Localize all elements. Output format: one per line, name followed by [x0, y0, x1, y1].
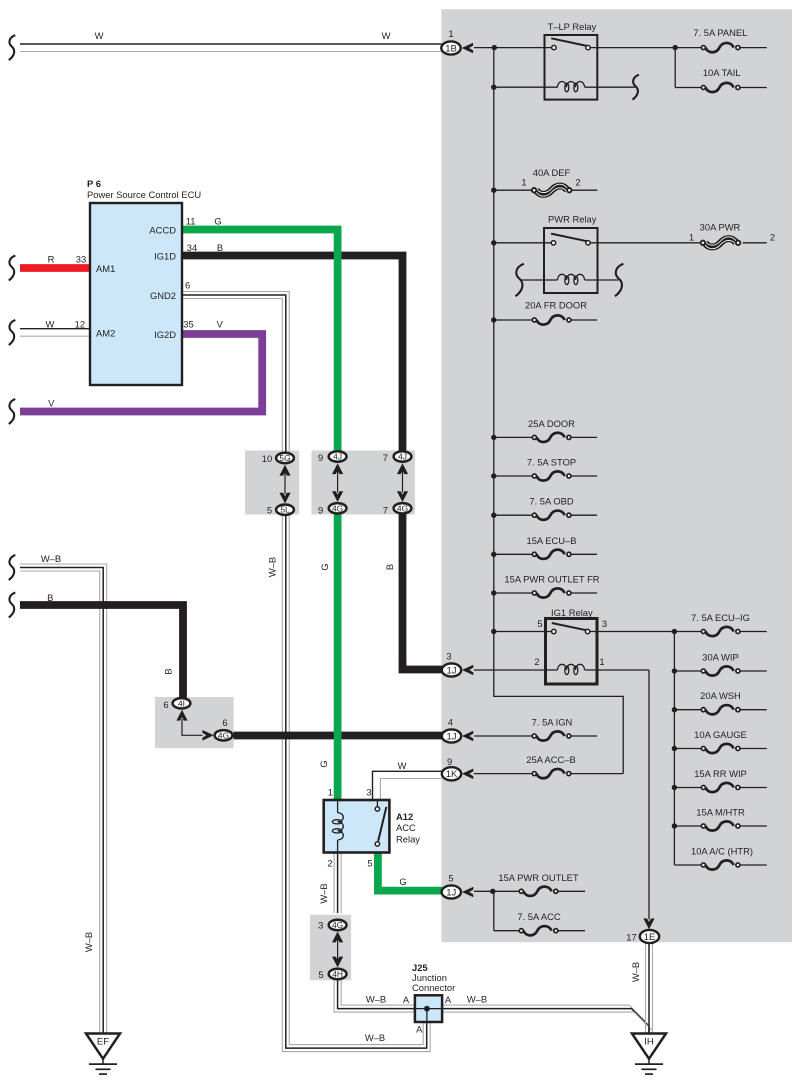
- ECU P6 Power Source Control ECU: [87, 178, 201, 385]
- svg-text:1E: 1E: [644, 932, 656, 943]
- fuse 15A RR WIP: [694, 768, 747, 792]
- connector 5G pin 10: [262, 453, 294, 464]
- connector 4G pin 6: [215, 717, 233, 741]
- connector 4J pin 9: [318, 451, 347, 463]
- pin 35 label V: [183, 319, 223, 330]
- svg-text:4G: 4G: [218, 730, 229, 740]
- svg-text:5: 5: [267, 505, 272, 516]
- svg-text:W–B: W–B: [366, 994, 386, 1005]
- svg-text:B: B: [384, 564, 395, 570]
- wire W ACC relay pin3 to 1K: [373, 771, 443, 800]
- connector 1J pin 4: [442, 717, 461, 743]
- break symbol R wire: [9, 256, 16, 281]
- ground EF: [86, 1034, 120, 1075]
- svg-text:1K: 1K: [446, 769, 458, 780]
- break symbol top W wire: [9, 35, 16, 60]
- junction at 674.4,709.7: [672, 707, 677, 712]
- fuse 7.5A ACC: [517, 911, 560, 935]
- svg-text:40A DEF: 40A DEF: [533, 167, 571, 178]
- wire W-B from ECU GND2 to J25 junction connector: [182, 292, 430, 1052]
- wire T-LP relay coil row: [494, 86, 636, 88]
- connector 4I pin 6: [163, 698, 190, 710]
- svg-text:34: 34: [187, 242, 197, 253]
- svg-text:15A PWR OUTLET: 15A PWR OUTLET: [498, 872, 579, 883]
- wire 25A ACC-B fuse row: [474, 773, 623, 775]
- wire IG1 coil pin1 to 1E: [585, 670, 649, 919]
- svg-text:25A ACC–B: 25A ACC–B: [526, 754, 576, 765]
- svg-text:35: 35: [183, 319, 193, 330]
- svg-text:6: 6: [222, 717, 227, 728]
- svg-text:R: R: [48, 254, 55, 265]
- junction at 493.8,554.3: [491, 552, 496, 557]
- label W-B on GND2 wire: [267, 557, 278, 577]
- svg-text:4G: 4G: [332, 503, 343, 513]
- svg-text:ACCD: ACCD: [149, 225, 176, 236]
- connector block 4J/4G background: [312, 451, 415, 515]
- wire 10A A/C (HTR) fuse row: [674, 864, 766, 866]
- svg-text:6: 6: [163, 699, 168, 710]
- arrow into 1E: [643, 919, 654, 930]
- fuse 10A GAUGE: [694, 729, 747, 753]
- label B on black wire: [384, 564, 395, 570]
- svg-text:IG2D: IG2D: [154, 329, 176, 340]
- junction at 493.8,242.8: [491, 240, 496, 245]
- wire 15A PWR OUTLET fuse row: [474, 890, 585, 892]
- relay T-LP: [545, 21, 598, 100]
- pin 6 label: [185, 280, 190, 291]
- connector 1K pin 9: [442, 756, 461, 780]
- fuse 15A PWR OUTLET: [498, 872, 579, 896]
- relay IG1: [534, 607, 607, 684]
- svg-text:7. 5A ACC: 7. 5A ACC: [517, 911, 560, 922]
- wire W to ECU AM2 (white): [20, 329, 90, 337]
- svg-text:EF: EF: [97, 1037, 109, 1048]
- junction at 493.8,87.2: [491, 85, 496, 90]
- svg-text:5L: 5L: [280, 505, 290, 515]
- svg-text:A: A: [403, 994, 410, 1005]
- svg-text:A: A: [445, 994, 452, 1005]
- label A below J25: [416, 1024, 423, 1035]
- relay PWR: [544, 214, 598, 294]
- svg-text:7. 5A ECU–IG: 7. 5A ECU–IG: [691, 612, 750, 623]
- junction at 674.4,748.5: [672, 746, 677, 751]
- svg-text:30A PWR: 30A PWR: [700, 222, 741, 233]
- pin 11 label G: [186, 216, 222, 227]
- svg-text:Relay: Relay: [396, 834, 420, 845]
- connector 4H pin 5: [318, 969, 346, 980]
- svg-text:10A A/C (HTR): 10A A/C (HTR): [691, 846, 753, 857]
- arrows between 4J and 4G (black): [397, 463, 408, 502]
- wire G ACC relay pin5 to 1J-5: [378, 845, 443, 891]
- break symbol T-LP coil wire: [633, 75, 640, 100]
- svg-text:AM2: AM2: [96, 328, 115, 339]
- svg-text:4H: 4H: [332, 969, 343, 979]
- svg-text:1: 1: [689, 232, 694, 243]
- junction at 494.3,47.6: [492, 45, 497, 50]
- svg-text:9: 9: [318, 505, 323, 516]
- label G on green wire: [319, 563, 330, 570]
- svg-text:ACC: ACC: [396, 822, 416, 833]
- label A left of J25: [403, 994, 410, 1005]
- svg-text:15A RR WIP: 15A RR WIP: [694, 768, 747, 779]
- connector 1J pin 3: [442, 651, 461, 677]
- wire 25A DOOR fuse row: [494, 436, 597, 438]
- svg-text:W–B: W–B: [267, 557, 278, 577]
- svg-text:7. 5A OBD: 7. 5A OBD: [529, 496, 574, 507]
- fuse 7.5A STOP: [527, 457, 576, 481]
- svg-text:Connector: Connector: [412, 982, 455, 993]
- connector 4G pin 3: [318, 920, 346, 931]
- label V left: [48, 397, 55, 408]
- wire B connector 4G to 1J-4: [234, 732, 444, 740]
- label B left: [47, 592, 53, 603]
- fuse 15A M/HTR: [696, 807, 745, 831]
- wire W to 1B (white): [20, 44, 442, 52]
- connector 4J pin 7: [383, 451, 412, 463]
- fuse 7.5A PANEL: [693, 27, 747, 52]
- svg-text:4J: 4J: [398, 452, 407, 462]
- fuse 25A DOOR: [528, 418, 575, 442]
- svg-text:3: 3: [446, 651, 451, 662]
- connector block 5G/5L background: [245, 451, 299, 515]
- junction at 493.8,515.2: [491, 513, 496, 518]
- wire 1J-3 arrow to IG1 coil: [474, 669, 558, 671]
- arrow into 1K: [462, 769, 473, 780]
- svg-text:3: 3: [366, 787, 371, 798]
- wire to 10A TAIL fuse: [675, 48, 767, 88]
- wire 15A ECU-B fuse row: [494, 553, 597, 555]
- svg-text:W: W: [45, 319, 54, 330]
- svg-text:1: 1: [448, 28, 453, 39]
- label W-B right of J25: [467, 994, 487, 1005]
- svg-text:5: 5: [537, 618, 542, 629]
- svg-text:5: 5: [318, 969, 323, 980]
- svg-text:A: A: [416, 1024, 423, 1035]
- svg-text:A12: A12: [396, 811, 413, 822]
- arrow into 1J-4: [462, 731, 473, 742]
- label W-B bottom wire: [365, 1032, 385, 1043]
- svg-text:1: 1: [599, 656, 604, 667]
- svg-text:G: G: [319, 563, 330, 570]
- pin 33 label R: [48, 254, 87, 265]
- svg-text:2: 2: [575, 176, 580, 187]
- svg-text:4G: 4G: [397, 503, 408, 513]
- svg-text:7: 7: [383, 505, 388, 516]
- svg-text:G: G: [399, 876, 406, 887]
- wire T-LP relay to 7.5A PANEL fuse: [590, 47, 767, 49]
- junction at 493.8,476: [491, 473, 496, 478]
- svg-text:B: B: [217, 242, 223, 253]
- svg-text:33: 33: [76, 254, 86, 265]
- junction at 674.4,787.5: [672, 785, 677, 790]
- wire 30A WIP fuse row: [674, 670, 766, 672]
- label B on left black wire: [163, 668, 174, 674]
- arrow into 1J-5: [462, 887, 473, 898]
- svg-text:20A FR DOOR: 20A FR DOOR: [525, 300, 587, 311]
- svg-text:G: G: [214, 216, 221, 227]
- wire 15A PWR OUTLET FR fuse row: [494, 592, 597, 594]
- pin 12 label W: [45, 319, 85, 330]
- svg-text:4: 4: [448, 717, 453, 728]
- svg-text:5: 5: [367, 858, 372, 869]
- fuse 10A A/C (HTR): [691, 846, 753, 870]
- svg-text:1J: 1J: [446, 665, 456, 676]
- svg-text:T–LP Relay: T–LP Relay: [548, 21, 597, 32]
- svg-text:7. 5A STOP: 7. 5A STOP: [527, 457, 576, 468]
- svg-text:4J: 4J: [333, 452, 342, 462]
- label W-B left: [41, 553, 61, 564]
- svg-text:5G: 5G: [279, 453, 290, 463]
- bus wire left column: [494, 48, 623, 774]
- junction at 674.4,826: [672, 823, 677, 828]
- svg-text:W–B: W–B: [467, 994, 487, 1005]
- svg-text:W–B: W–B: [365, 1032, 385, 1043]
- fuse 20A FR DOOR: [525, 300, 587, 325]
- svg-text:10: 10: [262, 453, 272, 464]
- svg-text:P 6: P 6: [87, 178, 101, 189]
- shaded relay/fuse block background: [441, 9, 792, 942]
- wire 40A DEF row: [494, 189, 598, 191]
- svg-text:Power Source Control ECU: Power Source Control ECU: [87, 189, 201, 200]
- svg-text:IG1D: IG1D: [154, 251, 176, 262]
- label W-B on ACC pin2 wire: [318, 883, 329, 903]
- wire W-B J25 to ground IH: [442, 1005, 652, 1033]
- wire B from ECU IG1D to 1J-3: [182, 256, 443, 670]
- svg-text:7. 5A PANEL: 7. 5A PANEL: [693, 27, 747, 38]
- svg-text:3: 3: [602, 618, 607, 629]
- wire 7.5A OBD fuse row: [494, 514, 597, 516]
- junction at 492.8,891.3: [490, 889, 495, 894]
- svg-text:11: 11: [186, 216, 196, 227]
- svg-text:2: 2: [327, 858, 332, 869]
- wire PWR relay to 30A PWR fuse: [590, 242, 767, 244]
- svg-text:4I: 4I: [178, 698, 185, 708]
- wire W-B to ground EF: [20, 564, 107, 1034]
- svg-text:W: W: [382, 30, 391, 41]
- wire 15A M/HTR fuse row: [674, 825, 766, 827]
- arrows between 5G and 5L: [279, 465, 290, 504]
- label W-B on EF wire: [83, 932, 94, 952]
- wire 7.5A ACC fuse row: [494, 891, 585, 930]
- svg-text:W–B: W–B: [83, 932, 94, 952]
- arrow into 1B: [462, 43, 473, 54]
- fuse 7.5A OBD: [529, 496, 574, 520]
- label A right of J25: [445, 994, 452, 1005]
- junction at 674.4,671: [672, 668, 677, 673]
- fuse 30A WIP: [701, 652, 740, 676]
- svg-text:IH: IH: [644, 1037, 654, 1048]
- wire bus to IG1 relay contact: [494, 631, 552, 633]
- wire 20A FR DOOR fuse row: [494, 319, 597, 321]
- wire W-B ACC relay pin2 to connector 4G: [334, 853, 341, 914]
- wire B (black) to connector 4I: [20, 605, 183, 698]
- svg-text:B: B: [47, 592, 53, 603]
- wire W-B connector 4H to J25: [334, 980, 415, 1012]
- label W on 1K wire: [398, 760, 407, 771]
- break symbol W-B wire: [9, 555, 16, 580]
- svg-text:W–B: W–B: [318, 883, 329, 903]
- fusible link 40A DEF: [521, 167, 580, 196]
- fuse 15A ECU-B: [526, 535, 576, 559]
- junction connector J25: [412, 962, 455, 1022]
- svg-text:1: 1: [521, 176, 526, 187]
- svg-text:PWR Relay: PWR Relay: [548, 214, 597, 225]
- svg-text:9: 9: [318, 452, 323, 463]
- svg-text:3: 3: [318, 920, 323, 931]
- svg-text:W: W: [95, 30, 104, 41]
- svg-text:15A M/HTR: 15A M/HTR: [696, 807, 745, 818]
- svg-text:6: 6: [185, 280, 190, 291]
- label W-B left of J25: [366, 994, 386, 1005]
- ground IH: [632, 1034, 666, 1075]
- svg-text:12: 12: [75, 319, 85, 330]
- fusible link 30A PWR: [689, 222, 775, 249]
- bus wire right fuse stack: [673, 632, 675, 866]
- wire 7.5A IGN fuse row: [474, 735, 597, 737]
- break symbol V wire: [9, 399, 16, 424]
- wire bus to PWR relay contact: [494, 242, 552, 244]
- arrows between 4G and 4H: [332, 932, 343, 968]
- label W top-right: [382, 30, 391, 41]
- connector 4G pin 7: [383, 503, 412, 516]
- wire PWR relay coil stubs: [521, 279, 619, 281]
- svg-text:15A PWR OUTLET FR: 15A PWR OUTLET FR: [504, 574, 599, 585]
- svg-text:25A DOOR: 25A DOOR: [528, 418, 575, 429]
- break symbol PWR coil right: [615, 264, 623, 297]
- arrows between 4I and 4G: [176, 710, 213, 741]
- junction at 493.8,190.2: [491, 188, 496, 193]
- svg-text:9: 9: [447, 756, 452, 767]
- svg-text:W: W: [398, 760, 407, 771]
- svg-text:4G: 4G: [332, 920, 343, 930]
- arrows between 4J and 4G (green): [332, 463, 343, 502]
- svg-text:5: 5: [448, 872, 453, 883]
- svg-text:W–B: W–B: [630, 962, 641, 982]
- wire V from ECU IG2D: [20, 334, 262, 412]
- fuse 7.5A ECU-IG: [691, 612, 750, 636]
- junction at 675.2,47.6: [673, 45, 678, 50]
- wire 20A WSH fuse row: [674, 709, 766, 711]
- junction at 493.8,437.4: [491, 435, 496, 440]
- svg-text:1: 1: [328, 786, 333, 797]
- relay A12 ACC: [324, 786, 421, 868]
- connector 5L pin 5: [267, 505, 294, 516]
- svg-text:30A WIP: 30A WIP: [702, 652, 738, 663]
- svg-text:W–B: W–B: [41, 553, 61, 564]
- fuse 25A ACC-B: [526, 754, 576, 778]
- fuse 10A TAIL: [701, 67, 740, 92]
- fuse 7.5A IGN: [532, 717, 573, 741]
- wire IG1 relay to 7.5A ECU-IG fuse: [590, 631, 767, 633]
- break symbol B wire: [9, 593, 16, 618]
- svg-text:GND2: GND2: [150, 290, 176, 301]
- svg-text:1B: 1B: [445, 43, 457, 54]
- svg-text:G: G: [318, 760, 329, 767]
- svg-text:15A ECU–B: 15A ECU–B: [526, 535, 576, 546]
- svg-text:7: 7: [383, 452, 388, 463]
- svg-text:17: 17: [626, 932, 636, 943]
- svg-text:1J: 1J: [446, 887, 456, 898]
- label W top-left: [95, 30, 104, 41]
- svg-text:IG1 Relay: IG1 Relay: [551, 607, 593, 618]
- label W-B on 1E wire: [630, 962, 641, 982]
- svg-text:1J: 1J: [446, 731, 456, 742]
- wire W-B 1E to ground IH: [646, 943, 653, 1034]
- wire 10A GAUGE fuse row: [674, 748, 766, 750]
- connector 1B pin 1: [441, 28, 460, 55]
- connector 1E pin 17: [626, 930, 659, 943]
- break symbol PWR coil left: [515, 264, 523, 297]
- connector block 4I/4G background: [155, 697, 234, 748]
- svg-text:10A GAUGE: 10A GAUGE: [694, 729, 747, 740]
- junction at 493.8,593: [491, 590, 496, 595]
- pin 34 label B: [187, 242, 223, 253]
- label G above ACC relay: [318, 760, 329, 767]
- junction at 674.4,631.5: [672, 629, 677, 634]
- fuse 15A PWR OUTLET FR: [504, 574, 599, 598]
- connector block 4G/4H background: [310, 915, 351, 981]
- svg-text:2: 2: [770, 232, 775, 243]
- wire R to ECU AM1: [20, 264, 90, 272]
- svg-text:AM1: AM1: [96, 263, 115, 274]
- svg-text:B: B: [163, 668, 174, 674]
- junction at 493.8,320: [491, 317, 496, 322]
- wire G from ECU ACCD to ACC relay: [182, 230, 338, 801]
- label G on 1J-5 wire: [399, 876, 406, 887]
- wire 7.5A STOP fuse row: [494, 475, 597, 477]
- svg-text:V: V: [48, 397, 55, 408]
- arrow into 1J-3: [462, 665, 473, 676]
- svg-text:V: V: [217, 319, 224, 330]
- svg-text:7. 5A IGN: 7. 5A IGN: [532, 717, 573, 728]
- wire 1B arrow to T-LP relay contact: [474, 47, 552, 49]
- connector 4G pin 9: [318, 503, 347, 516]
- svg-text:20A WSH: 20A WSH: [700, 690, 741, 701]
- svg-text:10A TAIL: 10A TAIL: [703, 67, 741, 78]
- wire 15A RR WIP fuse row: [674, 787, 766, 789]
- connector 1J pin 5: [442, 872, 461, 898]
- break symbol AM2 W wire: [9, 320, 16, 345]
- fuse 20A WSH: [700, 690, 741, 714]
- svg-text:2: 2: [534, 656, 539, 667]
- junction at 493.8,631.5: [491, 629, 496, 634]
